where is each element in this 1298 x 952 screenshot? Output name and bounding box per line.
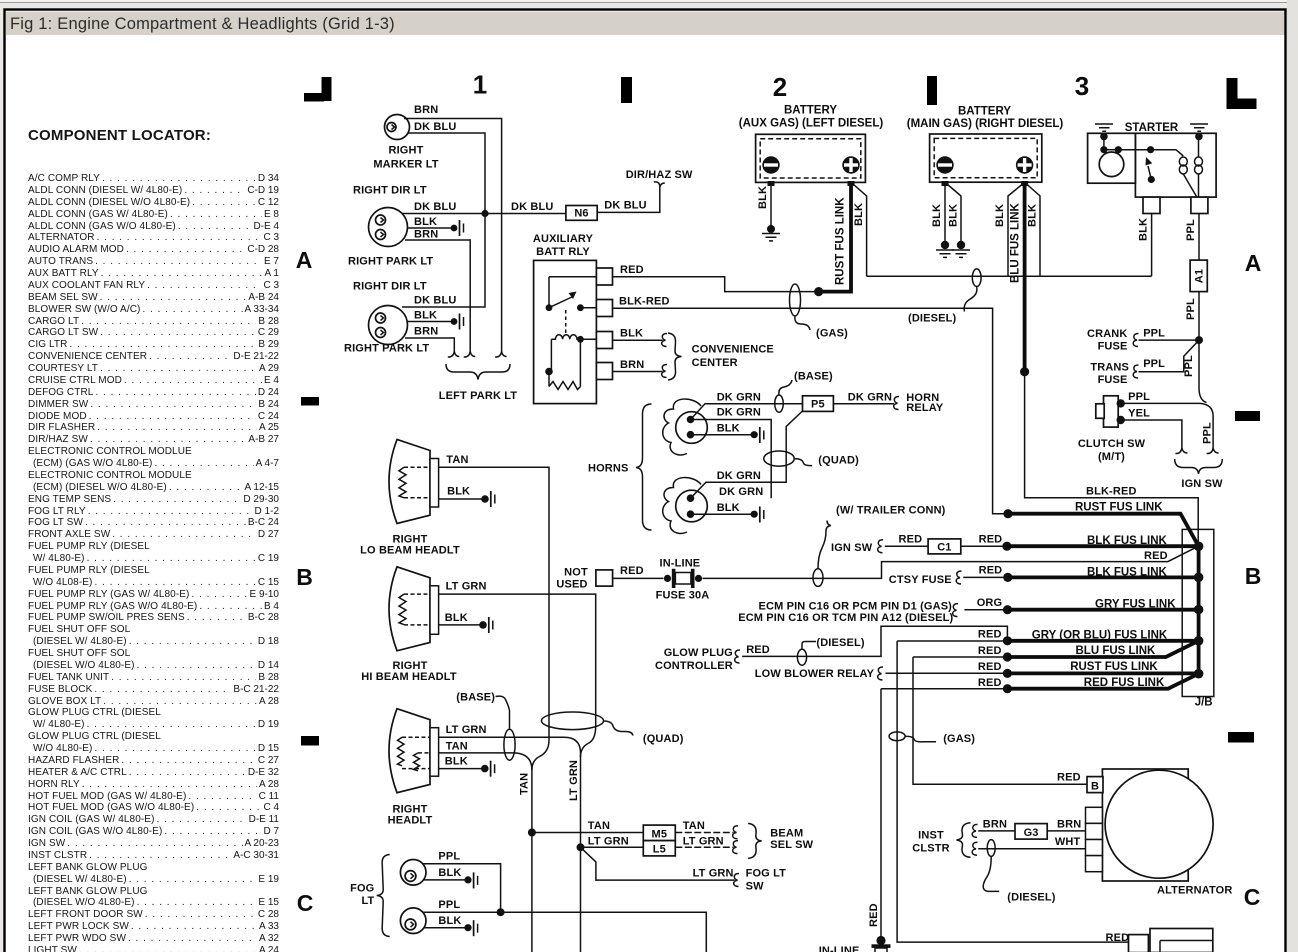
- svg-text:RED: RED: [979, 533, 1003, 545]
- wire LT GRN from headlight (heavy): [439, 724, 581, 753]
- svg-text:C: C: [1244, 884, 1261, 910]
- svg-text:DK GRN: DK GRN: [848, 391, 892, 403]
- connector oval (DIESEL) harness: [908, 269, 981, 325]
- starter pin BLK: [1143, 197, 1160, 213]
- svg-text:DK BLU: DK BLU: [511, 201, 553, 213]
- label FOG LT SW: [746, 867, 787, 892]
- wire DK BLU from right marker lt: [408, 121, 485, 214]
- svg-text:SW: SW: [746, 881, 764, 893]
- label LOW BLOWER RELAY: [755, 667, 883, 680]
- wire DK GRN horn 1 to horn 2: [691, 407, 772, 499]
- wire BLK battery 2 positive left branch: [994, 184, 1023, 276]
- grid row letter A right: [1245, 250, 1262, 276]
- svg-text:ALTERNATOR: ALTERNATOR: [1157, 885, 1232, 897]
- svg-text:PPL: PPL: [438, 851, 460, 863]
- svg-text:(M/T): (M/T): [1098, 451, 1125, 463]
- wire BLK hi beam to ground: [439, 612, 493, 633]
- svg-text:RIGHT DIR LT: RIGHT DIR LT: [353, 185, 427, 197]
- fusible link RED heavy: [1003, 674, 1199, 694]
- svg-text:IN-LINE: IN-LINE: [819, 945, 860, 952]
- svg-text:M5: M5: [652, 828, 668, 840]
- connector N6: [566, 206, 597, 221]
- svg-text:BLK: BLK: [438, 867, 461, 879]
- ground (chassis) lower dir lt: [451, 314, 464, 330]
- node DK BLU junction: [481, 210, 488, 217]
- svg-text:CONTROLLER: CONTROLLER: [655, 660, 733, 672]
- wire LT GRN from L5 to beam sel sw: [675, 836, 738, 854]
- wire BLK fog 1 to ground: [424, 867, 478, 888]
- battery 2 negative terminal: [936, 156, 953, 186]
- wire DK BLU from N6 to dir/haz sw: [597, 182, 665, 213]
- battery 1 positive terminal: [842, 156, 859, 186]
- svg-text:BLK FUS LINK: BLK FUS LINK: [1087, 535, 1168, 547]
- label RIGHT PARK LT (upper): [348, 256, 433, 268]
- label RIGHT LO BEAM HEADLT: [360, 534, 460, 557]
- wire RED from not used through in-line fuse: [613, 546, 1199, 578]
- svg-text:P5: P5: [811, 399, 825, 411]
- wire DK GRN P5 to horn relay: [833, 391, 899, 409]
- connector M5: [643, 825, 675, 841]
- grid row letter C left: [297, 890, 314, 916]
- label BEAM SEL SW: [770, 828, 813, 852]
- wire BLK horn 2 to ground: [691, 502, 764, 523]
- wire BRN from lower dir lt: [405, 326, 454, 352]
- battery 2 box: [907, 106, 1064, 183]
- wire RED to red fus link and bottom fuse: [868, 677, 1007, 938]
- alternator pin boxes: [1086, 807, 1103, 871]
- connector oval (QUAD) harness at horns: [764, 451, 859, 467]
- wire TAN from M5 to beam sel sw: [675, 820, 738, 839]
- svg-text:PPL: PPL: [438, 899, 460, 911]
- grid row letter B left: [296, 564, 313, 590]
- fusible link RUST (battery 1) heavy: [814, 182, 851, 296]
- svg-text:BRN: BRN: [414, 326, 438, 338]
- svg-text:GLOW PLUG: GLOW PLUG: [664, 647, 733, 659]
- svg-text:INST: INST: [918, 830, 944, 842]
- wire PPL to trans fuse: [1133, 340, 1199, 378]
- wire BLK from starter to negative bus: [1138, 214, 1152, 277]
- bottom right connector RED: [1106, 932, 1149, 952]
- svg-text:LT GRN: LT GRN: [683, 836, 724, 848]
- svg-text:FOG: FOG: [350, 883, 374, 895]
- connector oval (W/ TRAILER CONN) harness: [813, 505, 946, 587]
- svg-text:BLK FUS LINK: BLK FUS LINK: [1087, 566, 1168, 578]
- wire (GAS) vertical to bottom connector: [897, 641, 1128, 942]
- in-line fuse 30A: [656, 558, 710, 602]
- svg-text:(DIESEL): (DIESEL): [908, 313, 956, 325]
- svg-text:TAN: TAN: [446, 740, 468, 752]
- svg-text:IGN SW: IGN SW: [831, 542, 873, 554]
- connector A1: [1190, 260, 1207, 292]
- svg-text:BLK-RED: BLK-RED: [1086, 486, 1137, 498]
- label CONVENIENCE CENTER: [692, 344, 774, 370]
- svg-text:PPL: PPL: [1128, 391, 1150, 403]
- svg-text:RIGHT: RIGHT: [389, 145, 424, 157]
- label GLOW PLUG CONTROLLER: [655, 647, 740, 672]
- svg-text:RIGHT PARK LT: RIGHT PARK LT: [348, 256, 433, 268]
- node J/B 1: [1194, 542, 1204, 552]
- svg-text:RED: RED: [978, 677, 1002, 689]
- svg-text:BLK: BLK: [414, 216, 437, 228]
- battery 1 box: [739, 105, 884, 183]
- svg-text:(MAIN GAS) (RIGHT DIESEL): (MAIN GAS) (RIGHT DIESEL): [907, 118, 1064, 130]
- wire BLK from upper dir lt to ground: [407, 216, 454, 228]
- wire DK GRN horn 2 lower label: [719, 486, 763, 498]
- svg-text:DK BLU: DK BLU: [604, 200, 646, 212]
- svg-text:BRN: BRN: [620, 359, 644, 371]
- svg-text:CTSY FUSE: CTSY FUSE: [889, 574, 952, 586]
- wire BLK from lower dir lt to ground: [407, 310, 454, 322]
- wire BLK battery 1 negative to ground: [757, 186, 771, 229]
- svg-text:BLK: BLK: [447, 486, 470, 498]
- wire PPL from A1 to junction: [1185, 292, 1199, 341]
- wire TAN to M5 (heavy): [532, 820, 643, 833]
- relay box AUX BATT RLY: [533, 233, 597, 404]
- connector oval (BASE) harness at P5: [775, 371, 833, 413]
- lamp: right dir/park lt bulb (lower): [369, 306, 408, 345]
- label IGN SW (mid) + C1 row: [831, 540, 883, 554]
- svg-text:N6: N6: [574, 208, 588, 220]
- svg-text:PPL: PPL: [1183, 355, 1195, 377]
- svg-text:USED: USED: [556, 579, 587, 591]
- svg-text:ORG: ORG: [977, 597, 1003, 609]
- ground (chassis) upper dir lt: [451, 220, 464, 236]
- svg-text:CONVENIENCE: CONVENIENCE: [692, 344, 774, 356]
- svg-text:J/B: J/B: [1195, 696, 1213, 708]
- relay pin tab BRN: [596, 363, 612, 380]
- ground starter left: [1095, 124, 1113, 140]
- wire PPL from clutch sw (heavy): [1121, 391, 1200, 403]
- connector G3: [1015, 824, 1047, 840]
- svg-text:RED: RED: [1057, 772, 1081, 784]
- wire BLK battery 1 positive branch: [853, 184, 867, 276]
- wire BLK horn 1 to ground: [691, 423, 764, 444]
- junction block J/B box: [1182, 529, 1214, 708]
- wire BLK from relay to convenience center: [613, 328, 668, 347]
- svg-text:BLK: BLK: [717, 423, 740, 435]
- svg-text:RED: RED: [620, 565, 644, 577]
- relay internal: feed line and switch: [546, 277, 597, 336]
- wire BLK battery 2 positive right branch: [1027, 184, 1041, 276]
- label CRANK FUSE: [1087, 328, 1127, 353]
- svg-text:(GAS): (GAS): [943, 733, 975, 745]
- wire BRN inst clstr to G3: [972, 819, 1015, 838]
- svg-text:GRY (OR BLU) FUS LINK: GRY (OR BLU) FUS LINK: [1032, 630, 1168, 642]
- svg-text:TRANS: TRANS: [1090, 362, 1129, 374]
- starter assembly: [1088, 122, 1217, 197]
- fog light bulb 1: [400, 860, 426, 886]
- svg-text:FOG LT: FOG LT: [746, 867, 787, 879]
- label RIGHT DIR LT (upper): [353, 185, 427, 197]
- svg-text:BRN: BRN: [1057, 819, 1081, 831]
- svg-text:AUXILIARY: AUXILIARY: [533, 233, 594, 245]
- wire TAN vertical to beam sel: [519, 770, 532, 952]
- grid row letter A left: [296, 247, 313, 273]
- grid tick right 1: [1235, 411, 1260, 421]
- grid column number 3: [1075, 71, 1089, 101]
- svg-text:RED: RED: [979, 565, 1003, 577]
- wire BRN from right marker lt: [404, 104, 502, 352]
- relay pin tab BLK: [596, 332, 612, 349]
- svg-text:LOW BLOWER RELAY: LOW BLOWER RELAY: [755, 668, 875, 680]
- lamp: right marker lt bulb: [385, 115, 410, 140]
- label CTSY FUSE: [889, 571, 962, 586]
- ground battery 2 (right): [952, 241, 970, 258]
- relay internal: resistor and BRN node: [545, 339, 580, 389]
- svg-text:DK BLU: DK BLU: [414, 295, 456, 307]
- wire DK GRN horn 1 to P5: [691, 392, 803, 420]
- svg-text:FUSE 30A: FUSE 30A: [656, 590, 710, 602]
- relay pin tab BLK-RED: [596, 300, 612, 317]
- label RED small (J/B row): [1144, 550, 1168, 562]
- node LT GRN junction: [577, 843, 585, 851]
- label NOT USED + connector: [556, 567, 612, 591]
- node PPL fog junction: [497, 908, 505, 916]
- node PPL junction: [1195, 336, 1203, 344]
- svg-text:LT GRN: LT GRN: [588, 836, 629, 848]
- grid tick right 2: [1228, 732, 1254, 743]
- svg-text:A1: A1: [1194, 269, 1206, 283]
- wire BLK-RED from blu fus link to J/B: [1025, 372, 1199, 543]
- svg-text:YEL: YEL: [1128, 408, 1150, 420]
- clutch sw connector: [1096, 396, 1125, 427]
- svg-text:C: C: [297, 890, 314, 916]
- svg-text:BATTERY: BATTERY: [958, 106, 1011, 118]
- svg-text:BLU FUS LINK: BLU FUS LINK: [1076, 645, 1157, 657]
- connector oval (GAS) lower: [889, 732, 975, 745]
- svg-text:L5: L5: [653, 844, 666, 856]
- svg-text:A: A: [296, 247, 313, 273]
- label TRANS FUSE: [1090, 362, 1129, 387]
- grid row letter C right: [1244, 884, 1261, 910]
- svg-text:RUST FUS LINK: RUST FUS LINK: [1070, 661, 1158, 673]
- svg-text:PPL: PPL: [1185, 298, 1197, 320]
- svg-text:(GAS): (GAS): [816, 328, 848, 340]
- fusible link BLK row2 heavy: [1003, 566, 1198, 582]
- svg-text:(QUAD): (QUAD): [818, 455, 859, 467]
- svg-text:G3: G3: [1024, 827, 1039, 839]
- headlight right lo beam: [389, 440, 439, 524]
- label ECM PIN rows: [738, 601, 958, 624]
- label RIGHT MARKER LT: [373, 145, 438, 171]
- bottom in-line fuse: [819, 936, 891, 952]
- horn 2 (lower): [663, 478, 708, 534]
- alternator body: [1102, 769, 1232, 897]
- brace ign sw: [1175, 459, 1223, 474]
- svg-text:HEADLT: HEADLT: [388, 815, 433, 827]
- svg-text:RED: RED: [978, 661, 1002, 673]
- svg-text:BLK: BLK: [931, 204, 943, 227]
- wire DK GRN horn 2 to P5: [691, 411, 803, 498]
- starter pin PPL: [1191, 197, 1208, 213]
- svg-text:IGN SW: IGN SW: [1181, 478, 1223, 490]
- svg-text:MARKER LT: MARKER LT: [373, 159, 438, 171]
- connector B at alternator: [1087, 777, 1103, 793]
- fusible link BLK row1 heavy: [1002, 535, 1198, 551]
- svg-text:DK BLU: DK BLU: [414, 201, 456, 213]
- node J/B 5: [1194, 669, 1204, 679]
- fusible link GRY row heavy: [1003, 599, 1199, 615]
- wire RED C1 to fus link: [961, 533, 1007, 546]
- starter solenoid coils: [1179, 140, 1202, 197]
- connector oval (BASE) at headlight: [504, 729, 515, 760]
- wire TAN from headlight: [439, 740, 532, 770]
- svg-text:(W/ TRAILER CONN): (W/ TRAILER CONN): [836, 505, 946, 517]
- svg-text:BLK: BLK: [948, 204, 960, 227]
- label IGN SW (starter area): [1181, 478, 1223, 490]
- svg-text:B: B: [1091, 780, 1099, 792]
- svg-text:WHT: WHT: [1055, 836, 1081, 848]
- svg-text:BLK: BLK: [414, 310, 437, 322]
- svg-text:RED: RED: [868, 903, 880, 927]
- wire PPL to crank fuse: [1133, 328, 1199, 347]
- wire BLK lo beam to ground: [439, 486, 495, 508]
- battery 1 negative terminal: [762, 156, 779, 186]
- svg-text:RUST FUS LINK: RUST FUS LINK: [835, 197, 847, 285]
- label LEFT PARK LT: [439, 390, 518, 402]
- svg-text:BLK: BLK: [1138, 218, 1150, 241]
- lamp: right dir/park lt bulb (upper): [369, 208, 408, 247]
- wire PPL main down to ign sw: [1199, 340, 1214, 448]
- svg-text:BLK: BLK: [620, 328, 643, 340]
- grid column number 1: [473, 70, 487, 100]
- wire BLK fog 2 to ground: [424, 915, 478, 936]
- label RIGHT DIR LT (lower): [353, 281, 427, 293]
- wire LT GRN from hi beam: [439, 581, 596, 757]
- fusible link BLU heavy: [1003, 641, 1199, 662]
- grid tick left 1: [301, 397, 319, 406]
- svg-text:RED: RED: [978, 645, 1002, 657]
- ground starter right: [1190, 124, 1208, 140]
- svg-text:DK GRN: DK GRN: [717, 470, 761, 482]
- wire RED ign sw to C1: [885, 533, 928, 546]
- svg-text:BLK: BLK: [445, 756, 468, 768]
- node J/B 4: [1194, 636, 1204, 646]
- wire BLK battery 2 negative straight: [931, 186, 945, 245]
- svg-text:BLK-RED: BLK-RED: [619, 296, 670, 308]
- grid corner mark top-left: [304, 77, 332, 102]
- svg-text:RED: RED: [620, 264, 644, 276]
- J/B bus heavy: [1197, 546, 1201, 673]
- svg-text:DK GRN: DK GRN: [719, 486, 763, 498]
- wire common negative bus: [867, 275, 1152, 277]
- svg-text:(BASE): (BASE): [456, 692, 495, 704]
- svg-text:CLUTCH SW: CLUTCH SW: [1078, 438, 1146, 450]
- wire-end hooks ign sw: [1175, 448, 1218, 454]
- svg-text:RED: RED: [1106, 932, 1130, 944]
- wire BLK-RED from relay across: [613, 296, 1008, 514]
- wire BRN G3 to alternator: [1047, 819, 1085, 831]
- svg-text:C1: C1: [937, 542, 951, 554]
- svg-text:3: 3: [1075, 71, 1089, 101]
- svg-text:CENTER: CENTER: [692, 357, 738, 369]
- svg-text:FUSE: FUSE: [1098, 341, 1128, 353]
- svg-text:TAN: TAN: [519, 773, 531, 795]
- label HORN RELAY: [906, 392, 944, 414]
- svg-text:DK BLU: DK BLU: [414, 121, 456, 133]
- wire LT GRN to fog lt sw: [581, 847, 740, 886]
- svg-text:ECM PIN C16 OR PCM PIN D1 (GAS: ECM PIN C16 OR PCM PIN D1 (GAS): [758, 601, 952, 613]
- svg-text:B: B: [296, 564, 313, 590]
- svg-text:FUSE: FUSE: [1098, 374, 1128, 386]
- svg-text:TAN: TAN: [446, 454, 468, 466]
- svg-text:RED: RED: [899, 533, 923, 545]
- svg-text:HORNS: HORNS: [588, 463, 628, 475]
- svg-text:BLK: BLK: [717, 502, 740, 514]
- connector C1: [928, 539, 961, 554]
- svg-text:PPL: PPL: [1143, 358, 1165, 370]
- svg-text:RUST FUS LINK: RUST FUS LINK: [1075, 502, 1163, 514]
- connector oval (QUAD) big at verticals: [542, 712, 684, 745]
- grid corner mark top-right: [1227, 78, 1257, 109]
- wire DK BLU from upper dir lt to junction and N6: [402, 201, 566, 214]
- wire RED from relay to fus link: [613, 264, 818, 292]
- connector oval (DIESEL) at glow wire: [797, 637, 864, 665]
- svg-text:RELAY: RELAY: [906, 402, 944, 414]
- brace fog lt: [350, 855, 390, 937]
- svg-text:RED: RED: [978, 629, 1002, 641]
- svg-text:LT GRN: LT GRN: [446, 581, 487, 593]
- svg-text:CLSTR: CLSTR: [912, 843, 949, 855]
- svg-text:LT GRN: LT GRN: [693, 867, 734, 879]
- svg-text:ECM PIN C16 OR TCM PIN A12 (DI: ECM PIN C16 OR TCM PIN A12 (DIESEL): [738, 612, 953, 624]
- svg-text:BRN: BRN: [414, 104, 438, 116]
- node J/B 3: [1194, 605, 1204, 615]
- brace beam sel sw: [748, 823, 762, 858]
- svg-text:(DIESEL): (DIESEL): [816, 637, 864, 649]
- svg-text:DK GRN: DK GRN: [717, 407, 761, 419]
- wire TAN from lo beam: [439, 454, 549, 770]
- svg-text:BLK: BLK: [853, 203, 865, 226]
- svg-text:BLK: BLK: [994, 204, 1006, 227]
- grid tick top middle-right: [927, 76, 937, 105]
- wire BRN from relay to convenience center: [613, 359, 668, 378]
- wire-end hooks to left park lt: [448, 352, 507, 358]
- svg-text:2: 2: [773, 72, 787, 102]
- connector L5: [643, 841, 675, 856]
- label RIGHT PARK LT (lower): [344, 343, 429, 355]
- svg-text:STARTER: STARTER: [1125, 122, 1179, 134]
- label CLUTCH SW (M/T): [1078, 438, 1146, 463]
- svg-text:LEFT PARK LT: LEFT PARK LT: [439, 390, 518, 402]
- node TAN junction: [528, 829, 536, 837]
- wire WHT inst clstr to alternator: [972, 836, 1085, 855]
- svg-text:CRANK: CRANK: [1087, 328, 1127, 340]
- svg-text:NOT: NOT: [564, 567, 588, 579]
- svg-text:(DIESEL): (DIESEL): [1007, 892, 1055, 904]
- svg-text:PPL: PPL: [1202, 422, 1214, 444]
- svg-text:LO BEAM HEADLT: LO BEAM HEADLT: [360, 544, 460, 556]
- svg-text:B: B: [1245, 563, 1262, 589]
- svg-text:RED: RED: [1144, 550, 1168, 562]
- svg-text:PPL: PPL: [1143, 328, 1165, 340]
- svg-text:PPL: PPL: [1185, 219, 1197, 241]
- wire PPL from starter to A1: [1185, 214, 1199, 261]
- grid column number 2: [773, 72, 787, 102]
- svg-text:BLK: BLK: [445, 612, 468, 624]
- grid tick left 2: [301, 736, 319, 746]
- svg-text:IN-LINE: IN-LINE: [660, 558, 701, 570]
- label RIGHT HI BEAM HEADLT: [361, 660, 457, 683]
- brace horns: [588, 404, 652, 530]
- svg-text:RIGHT DIR LT: RIGHT DIR LT: [353, 281, 427, 293]
- svg-text:(AUX GAS) (LEFT DIESEL): (AUX GAS) (LEFT DIESEL): [739, 118, 884, 130]
- wire LT GRN vertical to beam sel: [568, 753, 581, 952]
- fusible link RUST row heavy: [1003, 502, 1198, 547]
- wire PPL fog 1 (heavy): [423, 851, 501, 913]
- wire BLK headlight to ground: [439, 756, 495, 777]
- fusible link RUST2 heavy: [1003, 661, 1199, 678]
